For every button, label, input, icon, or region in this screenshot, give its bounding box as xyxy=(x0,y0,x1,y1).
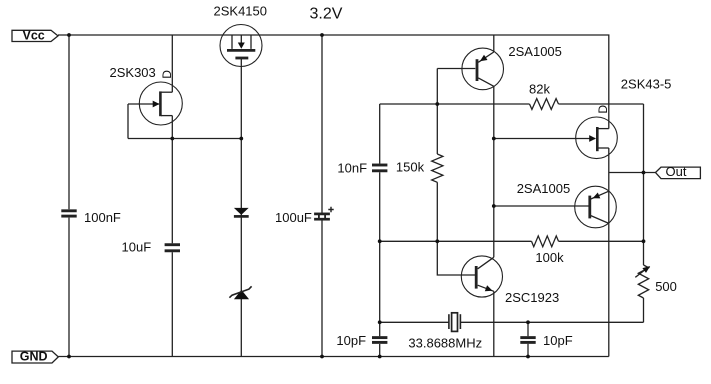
svg-text:82k: 82k xyxy=(529,82,550,97)
svg-text:10uF: 10uF xyxy=(122,240,152,255)
svg-text:D: D xyxy=(596,105,610,114)
svg-text:10pF: 10pF xyxy=(336,333,366,348)
svg-text:3.2V: 3.2V xyxy=(310,6,343,23)
svg-text:2SK43-5: 2SK43-5 xyxy=(621,76,672,91)
svg-text:D: D xyxy=(160,70,174,79)
svg-text:150k: 150k xyxy=(396,160,425,175)
svg-text:GND: GND xyxy=(20,350,48,364)
svg-text:10pF: 10pF xyxy=(543,333,573,348)
svg-text:Out: Out xyxy=(666,164,687,179)
svg-text:2SA1005: 2SA1005 xyxy=(508,44,562,59)
svg-text:2SK303: 2SK303 xyxy=(110,65,156,80)
svg-text:100uF: 100uF xyxy=(275,210,312,225)
svg-text:Vcc: Vcc xyxy=(23,29,45,43)
svg-text:33.8688MHz: 33.8688MHz xyxy=(408,335,482,350)
svg-text:100k: 100k xyxy=(535,250,564,265)
svg-text:500: 500 xyxy=(655,279,677,294)
svg-text:10nF: 10nF xyxy=(337,160,367,175)
svg-text:2SA1005: 2SA1005 xyxy=(517,181,571,196)
svg-text:2SK4150: 2SK4150 xyxy=(214,4,268,19)
svg-text:100nF: 100nF xyxy=(84,210,121,225)
svg-text:2SC1923: 2SC1923 xyxy=(505,290,559,305)
